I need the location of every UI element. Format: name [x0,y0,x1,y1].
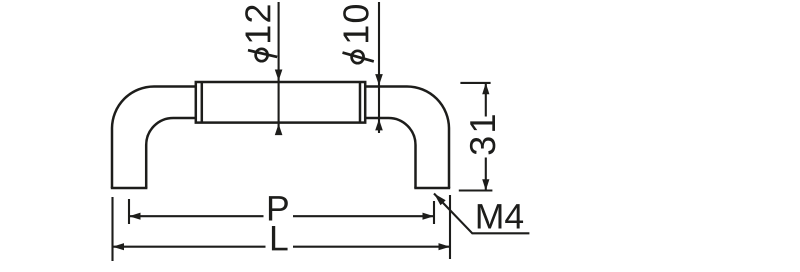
dimension 31 extension line bottom [459,189,493,191]
dimension line phi10 vertical [378,2,380,133]
dimension 31 line upper segment [485,83,487,117]
handle right grip top edge and outer bend [365,87,449,189]
dimension L extension line right [449,195,451,259]
dimension L line left segment [113,246,266,248]
label L [272,226,288,250]
arrowhead M4 leader (points up-left) [434,194,446,206]
handle right grip bottom edge and inner bend [365,118,415,188]
dimension 31 extension line top [460,82,490,84]
dimension 31 line lower segment [485,158,487,191]
tube left cap inner line [201,82,204,123]
arrowhead phi10 top (down) [375,74,383,85]
arrowhead L left [113,243,125,250]
tube right cap inner line [359,82,362,123]
dimension P line left segment [129,215,264,217]
arrowhead L right [439,243,451,250]
arrowhead phi12 bottom (up) [275,124,283,135]
handle left leg inner edge and inner bend [146,118,196,188]
label M4 [478,204,523,228]
handle left leg outer edge and outer bend [112,87,196,189]
handle left foot bottom [111,187,148,190]
handle center tube body (phi 12) [196,82,365,123]
label 31 (rotated) [470,115,495,154]
dimension P line right segment [293,215,434,217]
label phi10 digits (rotated) [343,5,368,42]
phi symbol of phi12 label [248,49,277,61]
arrowhead P left [129,213,141,220]
label P [269,196,288,220]
arrowhead 31 bottom (down) [482,179,489,190]
handle right foot bottom [414,187,450,190]
phi symbol of phi10 label [343,51,374,63]
dimension P extension line right [433,201,435,224]
M4 leader line [434,194,529,234]
arrowhead 31 top (up) [482,83,489,94]
label phi12 digits (rotated) [245,5,270,42]
arrowhead P right [423,213,435,220]
dimension L line right segment [293,246,450,248]
dimension P extension line left [128,199,130,224]
arrowhead phi12 top (down) [275,70,283,81]
dimension line phi12 vertical [278,2,280,135]
dimension L extension line left [111,197,113,261]
arrowhead phi10 bottom (up) [375,119,383,130]
